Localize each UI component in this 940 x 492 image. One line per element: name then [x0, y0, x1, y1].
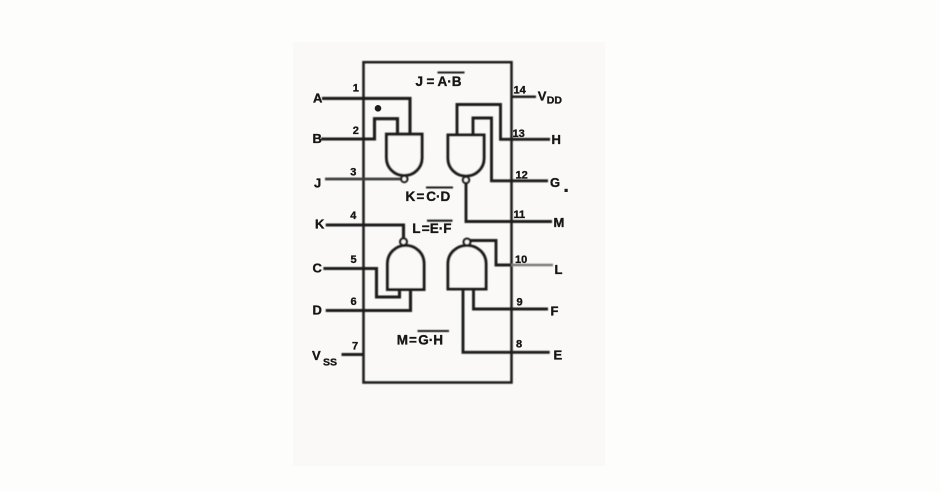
svg-text:M: M	[397, 333, 408, 348]
svg-text:SS: SS	[323, 357, 337, 369]
svg-text:2: 2	[353, 125, 359, 137]
svg-text:DD: DD	[547, 95, 563, 107]
svg-text:=: =	[422, 221, 430, 236]
svg-text:12: 12	[516, 169, 528, 181]
svg-text:1: 1	[353, 82, 359, 94]
svg-text:K: K	[315, 217, 325, 232]
svg-text:G: G	[550, 175, 560, 190]
svg-text:=: =	[417, 189, 425, 204]
svg-text:C: C	[313, 261, 323, 276]
svg-text:4: 4	[350, 210, 357, 222]
svg-text:F: F	[551, 303, 559, 318]
svg-text:E: E	[554, 347, 563, 362]
svg-text:V: V	[538, 89, 547, 104]
svg-text:J: J	[416, 74, 424, 89]
svg-text:=: =	[427, 74, 435, 89]
svg-text:D: D	[313, 303, 322, 318]
svg-text:M: M	[554, 215, 565, 230]
svg-text:B: B	[313, 131, 322, 146]
svg-text:5: 5	[351, 254, 357, 266]
svg-text:E·F: E·F	[430, 221, 452, 236]
svg-text:14: 14	[514, 85, 527, 97]
svg-text:3: 3	[350, 166, 356, 178]
svg-text:G·H: G·H	[418, 333, 443, 348]
svg-text:9: 9	[517, 297, 523, 309]
svg-text:8: 8	[516, 338, 522, 350]
svg-text:10: 10	[515, 254, 527, 266]
svg-text:L: L	[412, 221, 420, 236]
svg-text:V: V	[312, 348, 321, 363]
svg-text:A·B: A·B	[438, 74, 462, 89]
svg-text:L: L	[555, 262, 563, 277]
svg-text:A: A	[313, 91, 323, 106]
svg-text:K: K	[406, 189, 416, 204]
svg-text:7: 7	[352, 340, 358, 352]
svg-text:C·D: C·D	[426, 189, 450, 204]
svg-text:J: J	[314, 176, 321, 191]
svg-text:=: =	[409, 333, 417, 348]
svg-text:6: 6	[351, 296, 357, 308]
svg-text:H: H	[552, 132, 561, 147]
svg-text:13: 13	[513, 128, 525, 140]
svg-text:11: 11	[514, 209, 526, 221]
